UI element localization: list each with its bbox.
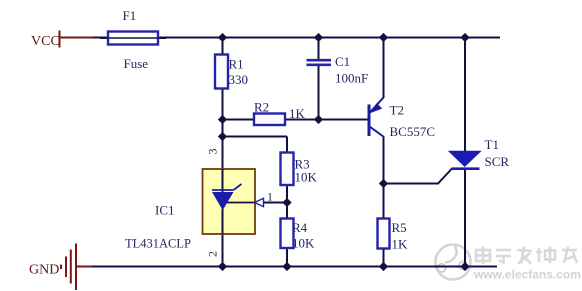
svg-text:SCR: SCR bbox=[485, 154, 510, 169]
svg-text:R5: R5 bbox=[392, 220, 407, 235]
svg-text:TL431ACLP: TL431ACLP bbox=[125, 237, 191, 251]
svg-text:IC1: IC1 bbox=[155, 203, 175, 218]
svg-text:F1: F1 bbox=[123, 8, 137, 23]
svg-text:R4: R4 bbox=[292, 220, 308, 235]
svg-text:10K: 10K bbox=[292, 236, 315, 251]
svg-text:VCC: VCC bbox=[31, 34, 60, 49]
svg-text:Fuse: Fuse bbox=[124, 56, 149, 71]
svg-text:3: 3 bbox=[206, 149, 220, 155]
svg-text:100nF: 100nF bbox=[335, 71, 368, 86]
svg-text:1K: 1K bbox=[289, 106, 306, 121]
svg-text:C1: C1 bbox=[335, 54, 350, 69]
svg-text:www.elecfans.com: www.elecfans.com bbox=[473, 268, 581, 282]
svg-text:GND: GND bbox=[29, 263, 59, 278]
svg-text:T2: T2 bbox=[390, 103, 404, 118]
svg-text:330: 330 bbox=[229, 72, 249, 87]
svg-text:2: 2 bbox=[206, 251, 220, 257]
svg-text:T1: T1 bbox=[485, 137, 499, 152]
svg-text:1: 1 bbox=[267, 190, 273, 204]
svg-text:BC557C: BC557C bbox=[390, 124, 436, 139]
svg-text:R1: R1 bbox=[229, 57, 244, 72]
svg-text:R2: R2 bbox=[254, 100, 269, 115]
svg-text:1K: 1K bbox=[392, 237, 409, 252]
svg-text:10K: 10K bbox=[295, 170, 318, 185]
